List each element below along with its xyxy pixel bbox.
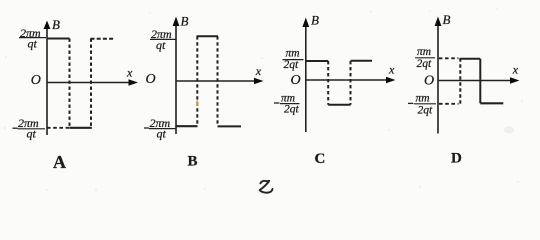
graph C waveform right dashed vertical: [350, 61, 352, 105]
graph D x-axis: [438, 80, 513, 82]
graph D label fraction bar top: [415, 57, 435, 59]
svg-text:qt: qt: [156, 38, 166, 52]
svg-text:2qt: 2qt: [284, 103, 300, 115]
graph D waveform right solid vertical: [479, 59, 481, 104]
graph B waveform right dashed vertical: [217, 36, 219, 126]
svg-text:O: O: [424, 74, 434, 89]
graph C y-axis arrow: [302, 18, 309, 28]
graph A label -2pi m/qt minus: [13, 127, 18, 129]
graph A x-axis arrow: [129, 79, 139, 86]
svg-text:B: B: [443, 12, 451, 27]
graph B y-axis arrow: [173, 17, 180, 27]
graph D waveform top solid segment: [460, 58, 481, 60]
graph D waveform bottom solid segment: [480, 102, 503, 104]
scan noise specks: [4, 8, 523, 191]
svg-text:πm: πm: [416, 93, 430, 105]
graph C label fraction bar top: [283, 59, 304, 61]
svg-text:x: x: [126, 66, 133, 80]
graph A waveform dashed vertical 2: [90, 39, 92, 128]
graph D y-axis: [437, 24, 439, 134]
graph A waveform bottom dashed reference: [47, 127, 70, 129]
graph A y-axis: [46, 26, 48, 135]
graph C x-axis: [306, 79, 389, 81]
svg-text:x: x: [255, 64, 262, 78]
svg-text:O: O: [146, 72, 156, 87]
graph D waveform left dashed vertical: [459, 58, 461, 103]
graph B waveform bottom right solid segment: [218, 125, 242, 127]
svg-text:B: B: [188, 154, 198, 170]
graph D waveform bottom dashed reference: [439, 103, 459, 105]
svg-text:qt: qt: [28, 37, 38, 51]
graph D waveform top dashed reference: [439, 57, 459, 59]
svg-text:x: x: [388, 63, 395, 77]
graph B label fraction bar top: [150, 38, 177, 40]
svg-text:qt: qt: [27, 127, 37, 141]
graph B x-axis arrow: [254, 78, 264, 85]
svg-text:2qt: 2qt: [418, 104, 434, 116]
graph B label fraction bar bottom: [149, 128, 176, 130]
svg-text:x: x: [512, 62, 519, 76]
graph B waveform left dashed vertical: [196, 36, 198, 126]
svg-text:πm: πm: [286, 48, 300, 60]
graph C waveform top solid segment 2: [351, 60, 373, 62]
graph C x-axis arrow: [386, 77, 396, 84]
graph A x-axis: [47, 82, 131, 84]
graph A waveform bottom solid segment: [70, 127, 92, 129]
graph C label -pi m/2qt minus: [274, 102, 280, 104]
graph B label -2pi m/qt minus: [144, 127, 149, 129]
graph B waveform orange scan artifact: [196, 101, 198, 107]
svg-text:C: C: [315, 151, 326, 167]
graph C waveform bottom solid segment: [328, 104, 350, 106]
svg-text:2qt: 2qt: [417, 58, 433, 70]
svg-text:2qt: 2qt: [284, 59, 300, 71]
caption Yi character (drawn as path, CJK glyph unavailable): [260, 181, 273, 193]
graph C label fraction bar bottom: [280, 103, 300, 105]
graph A waveform top right dashed segment: [91, 38, 115, 40]
svg-text:qt: qt: [157, 126, 167, 140]
svg-text:B: B: [311, 13, 319, 28]
svg-text:B: B: [52, 17, 60, 32]
svg-text:πm: πm: [417, 46, 431, 58]
graph B waveform top solid segment: [197, 35, 219, 37]
graph C waveform top solid segment 1: [306, 60, 328, 62]
graph D y-axis arrow: [435, 17, 442, 27]
graph A label fraction bar top: [19, 37, 46, 39]
graph A waveform dashed vertical 1: [69, 39, 71, 128]
graph C waveform left dashed vertical: [327, 61, 329, 105]
graph A y-axis arrow: [44, 21, 51, 30]
svg-text:D: D: [451, 151, 462, 167]
svg-text:B: B: [181, 14, 189, 29]
graph B y-axis: [175, 24, 177, 134]
svg-text:A: A: [53, 152, 66, 172]
graph B x-axis: [176, 80, 257, 82]
graph A label fraction bar bottom: [18, 128, 46, 130]
graph C y-axis: [305, 25, 307, 132]
graph D x-axis arrow: [510, 77, 520, 84]
graph D label fraction bar bottom: [414, 103, 436, 105]
graph D label -pi m/2qt minus: [408, 102, 413, 104]
svg-text:O: O: [291, 73, 301, 88]
graph B waveform bottom left solid segment: [176, 125, 198, 127]
svg-text:O: O: [31, 73, 41, 88]
graph A waveform top solid segment: [47, 38, 70, 40]
